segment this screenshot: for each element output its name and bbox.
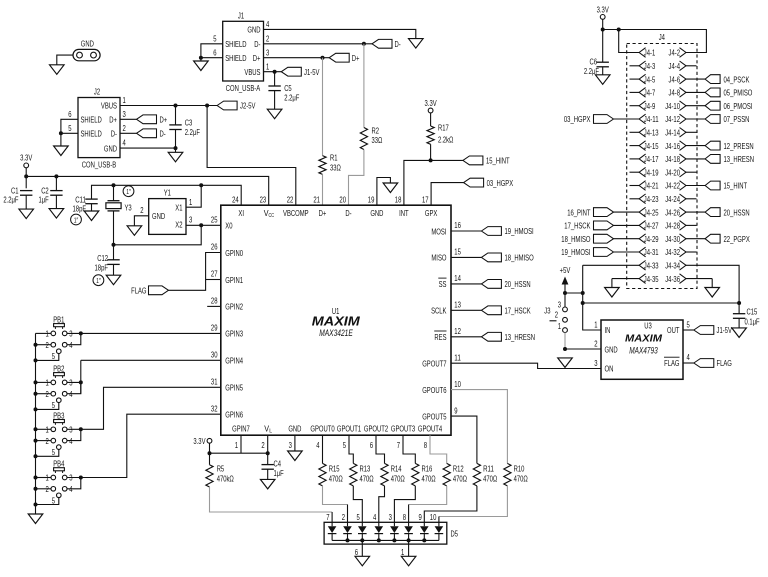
resistor R11 470ohm bbox=[473, 463, 480, 486]
wire R15 to D5 pin2 (grey) bbox=[323, 486, 348, 505]
wire PB2 pin1 to bus bbox=[36, 381, 52, 383]
resistor R2 33ohm bbox=[360, 128, 367, 150]
svg-text:31: 31 bbox=[211, 378, 218, 387]
svg-text:3: 3 bbox=[266, 48, 270, 57]
ground Y1 bbox=[127, 226, 142, 236]
wire 3.3V down bbox=[25, 168, 27, 189]
wire J1 VBUS to flag bbox=[264, 71, 282, 73]
svg-text:J4-1: J4-1 bbox=[644, 49, 656, 58]
wire C6 bottom bbox=[602, 67, 604, 75]
svg-text:J4-31: J4-31 bbox=[644, 248, 659, 257]
capacitor C12 18pF bbox=[107, 259, 119, 261]
svg-text:15_HINT: 15_HINT bbox=[486, 157, 510, 166]
svg-text:GPIN0: GPIN0 bbox=[225, 249, 243, 258]
wire PB3 pin5 to bus bbox=[36, 449, 59, 456]
svg-text:J4-24: J4-24 bbox=[665, 195, 680, 204]
J4 pin J4-8 bbox=[669, 88, 687, 98]
wire GPIN2 stub (n.c.) bbox=[207, 305, 221, 307]
wire R14 to D5 pin4 bbox=[379, 486, 385, 522]
svg-text:J4-34: J4-34 bbox=[665, 262, 680, 271]
wire U1 to flag 17_HSCK bbox=[451, 309, 481, 311]
wire J4-33 stub bbox=[583, 264, 639, 266]
svg-text:J4-8: J4-8 bbox=[669, 89, 681, 98]
svg-text:D+: D+ bbox=[160, 116, 168, 125]
wire J3 pin1 to ground (grey) bbox=[564, 333, 566, 350]
wire J4-24 stub (n.c.) bbox=[685, 198, 696, 200]
J4 pin J4-2 bbox=[669, 48, 687, 58]
svg-text:2: 2 bbox=[46, 485, 50, 494]
svg-text:GPIN5: GPIN5 bbox=[225, 384, 243, 393]
wire INT node to U1 INT pin18 bbox=[404, 160, 431, 205]
junction 3.3V J4 rail bbox=[601, 28, 605, 32]
wire FLAG to GPIN1/GPIN0 bbox=[169, 253, 221, 291]
wire J4-10 to flag bbox=[685, 105, 705, 107]
wire PB4 pin1 to bus bbox=[36, 477, 52, 479]
wire J4-22 to flag bbox=[685, 185, 705, 187]
svg-text:17_HSCK: 17_HSCK bbox=[505, 307, 532, 316]
svg-text:Y3: Y3 bbox=[125, 204, 133, 213]
svg-text:SHIELD: SHIELD bbox=[81, 116, 102, 125]
svg-text:+5V: +5V bbox=[560, 266, 571, 275]
svg-text:C2: C2 bbox=[41, 186, 49, 195]
svg-text:D-: D- bbox=[111, 130, 117, 139]
svg-text:1: 1 bbox=[401, 548, 405, 557]
wire J4-35 to ground bbox=[612, 278, 639, 280]
svg-text:R12: R12 bbox=[453, 465, 464, 474]
svg-text:SCLK: SCLK bbox=[431, 307, 447, 316]
ground C15 bbox=[732, 328, 747, 338]
svg-text:FLAG: FLAG bbox=[664, 359, 679, 368]
wire C5 bottom bbox=[274, 91, 276, 110]
svg-text:9: 9 bbox=[454, 406, 458, 415]
svg-text:R5: R5 bbox=[217, 465, 225, 474]
junction D5 cathode bbox=[407, 538, 411, 542]
svg-text:470Ω: 470Ω bbox=[360, 474, 374, 483]
svg-text:J4-30: J4-30 bbox=[665, 235, 680, 244]
svg-text:19: 19 bbox=[368, 195, 375, 204]
wire VL rail bbox=[210, 452, 268, 454]
ground C4 bbox=[260, 479, 275, 489]
resistor R17 2.2kohm bbox=[427, 126, 434, 144]
svg-text:3: 3 bbox=[69, 379, 73, 388]
pushbutton PB4 bbox=[46, 460, 73, 506]
wire D5 pin10 stub bbox=[438, 517, 440, 523]
svg-text:J4-26: J4-26 bbox=[665, 208, 680, 217]
flag 07_PSSN (at J4-12) bbox=[705, 115, 720, 124]
wire J4-27 to flag bbox=[614, 224, 640, 226]
svg-text:C4: C4 bbox=[274, 460, 282, 469]
svg-text:1: 1 bbox=[46, 379, 50, 388]
wire U1 to flag 13_HRESN bbox=[451, 336, 481, 338]
wire J4-19 stub (n.c.) bbox=[630, 171, 640, 173]
svg-text:6: 6 bbox=[370, 441, 374, 450]
svg-text:J4-28: J4-28 bbox=[665, 222, 680, 231]
note circled 1 inch near C11 bbox=[71, 214, 82, 225]
svg-text:2: 2 bbox=[594, 340, 598, 349]
wire to ground J2 GND bbox=[175, 148, 177, 152]
svg-text:X1: X1 bbox=[175, 203, 183, 212]
flag 18_HMISO (at U1) bbox=[481, 253, 501, 262]
J4 pin J4-9 bbox=[639, 101, 656, 111]
svg-text:J4-25: J4-25 bbox=[644, 208, 659, 217]
junction 3.3V rail bbox=[24, 174, 28, 178]
J4 pin J4-17 bbox=[639, 154, 659, 164]
wire J4-25 to flag bbox=[614, 211, 640, 213]
flag 20_HSSN (at U1) bbox=[481, 280, 501, 289]
svg-text:6: 6 bbox=[213, 48, 217, 57]
wire J4-34 to C15 rail bbox=[685, 265, 739, 303]
wire U1 to flag 18_HMISO bbox=[451, 256, 481, 258]
svg-text:FLAG: FLAG bbox=[717, 359, 732, 368]
wire GPOUT7 to U3 ON bbox=[451, 363, 601, 368]
flag 16_PINT (at J4-25) bbox=[594, 208, 614, 217]
J4 pin J4-21 bbox=[639, 181, 659, 191]
junction VBUS C5 bbox=[273, 70, 277, 74]
svg-text:0.1μF: 0.1μF bbox=[745, 317, 760, 326]
svg-text:470Ω: 470Ω bbox=[453, 474, 467, 483]
svg-text:3.3V: 3.3V bbox=[597, 6, 609, 15]
svg-text:J4-16: J4-16 bbox=[665, 142, 680, 151]
svg-text:10: 10 bbox=[430, 513, 437, 522]
svg-text:19_HMOSI: 19_HMOSI bbox=[505, 227, 534, 236]
flag 18_HMISO (at J4-29) bbox=[594, 234, 614, 243]
svg-text:20_HSSN: 20_HSSN bbox=[505, 280, 531, 289]
wire U1 to flag 20_HSSN bbox=[451, 283, 481, 285]
junction PB1 pin5 bus bbox=[34, 358, 38, 362]
junction +5V main node bbox=[581, 291, 585, 295]
wire 3.3V rail to Vcc pin23 bbox=[26, 176, 269, 205]
resistor R16 470ohm bbox=[412, 463, 419, 486]
wire C11 bottom bbox=[91, 204, 93, 211]
wire J2 D- to flag bbox=[120, 132, 137, 134]
svg-text:D+: D+ bbox=[109, 116, 117, 125]
svg-text:J4-7: J4-7 bbox=[644, 89, 656, 98]
svg-text:1: 1 bbox=[123, 96, 127, 105]
resistor R5 470ohm bbox=[206, 465, 213, 487]
svg-text:25: 25 bbox=[211, 216, 218, 225]
svg-text:C6: C6 bbox=[590, 57, 598, 66]
svg-text:22: 22 bbox=[287, 195, 294, 204]
svg-text:3: 3 bbox=[69, 426, 73, 435]
svg-text:D-: D- bbox=[160, 130, 166, 139]
svg-text:17_HSCK: 17_HSCK bbox=[564, 222, 591, 231]
wire GPIN1 stub bbox=[206, 279, 221, 281]
junction X1 drop bbox=[199, 183, 203, 187]
flag J1-5V (at U3 OUT) bbox=[694, 326, 714, 335]
svg-text:470kΩ: 470kΩ bbox=[217, 474, 234, 483]
flag FLAG (at U3) bbox=[694, 359, 714, 368]
svg-text:10: 10 bbox=[454, 380, 461, 389]
svg-text:GPOUT4: GPOUT4 bbox=[418, 425, 443, 434]
wire crystal rail to XI pin24 bbox=[92, 185, 242, 205]
junction PB3 pin3 bbox=[79, 427, 83, 431]
svg-text:6: 6 bbox=[355, 548, 359, 557]
ground pushbutton bus bbox=[28, 514, 43, 524]
wire INT node to flag 15_HINT bbox=[431, 159, 463, 161]
svg-text:J4: J4 bbox=[659, 33, 666, 42]
wire PB2 to GPIN4 pin30 bbox=[80, 360, 82, 393]
wire J4-4 stub (n.c.) bbox=[685, 65, 696, 67]
wire J4-3 stub (n.c.) bbox=[630, 65, 640, 67]
svg-text:MAXIM: MAXIM bbox=[312, 314, 361, 328]
svg-text:J4-21: J4-21 bbox=[644, 182, 659, 191]
svg-text:R10: R10 bbox=[514, 465, 525, 474]
svg-text:1: 1 bbox=[266, 62, 270, 71]
J4 pin J4-11 bbox=[639, 114, 659, 124]
svg-text:2.2μF: 2.2μF bbox=[284, 94, 299, 103]
note circled 1 inch near C12 bbox=[93, 275, 104, 286]
svg-text:11: 11 bbox=[454, 353, 461, 362]
resistor R1 33ohm bbox=[319, 156, 326, 175]
wire GPOUT6 to R10 (grey) bbox=[451, 390, 507, 464]
J4 pin J4-4 bbox=[669, 61, 687, 71]
J4 pin J4-6 bbox=[669, 74, 687, 84]
wire VL pin2 down bbox=[267, 435, 269, 464]
svg-text:R14: R14 bbox=[391, 465, 402, 474]
wire J1 shield pins bbox=[201, 44, 223, 61]
wire PB1 pin1 to bus bbox=[36, 332, 52, 334]
wire J4-15 stub (n.c.) bbox=[630, 145, 640, 147]
svg-text:J4-32: J4-32 bbox=[665, 248, 680, 257]
ground testpoint bbox=[50, 65, 65, 75]
wire C12 bottom bbox=[113, 264, 115, 275]
wire GPOUT5 to R11 bbox=[451, 416, 477, 463]
J4 pin J4-18 bbox=[665, 154, 686, 164]
wire PB1 pin5 to bus bbox=[36, 354, 59, 361]
flag 15_HINT (at U1 INT) bbox=[463, 156, 483, 165]
flag 13_HRESN (at J4-18) bbox=[705, 155, 720, 164]
wire D5 pin7 stub bbox=[331, 512, 333, 522]
J4 pin J4-28 bbox=[665, 221, 686, 231]
J4 pin J4-24 bbox=[665, 194, 686, 204]
junction J1 shield bbox=[199, 56, 203, 60]
wire PB3 pins 3-4 tie bbox=[67, 429, 81, 440]
svg-text:GPIN7: GPIN7 bbox=[232, 425, 250, 434]
svg-text:6: 6 bbox=[68, 110, 72, 119]
LED array D5 bbox=[324, 522, 447, 544]
svg-text:16: 16 bbox=[454, 221, 461, 230]
wire GPOUT4 to R12 (grey) bbox=[430, 435, 447, 463]
svg-text:J4-29: J4-29 bbox=[644, 235, 659, 244]
svg-text:J2: J2 bbox=[94, 87, 101, 96]
junction C15 top bbox=[737, 301, 741, 305]
junction C2 top bbox=[54, 174, 58, 178]
wire PB2 pin5 to bus bbox=[36, 403, 59, 410]
J4 pin J4-19 bbox=[639, 167, 659, 177]
svg-text:C1: C1 bbox=[11, 186, 19, 195]
wire J4-16 to flag bbox=[685, 145, 705, 147]
junction PB4 pin5 bus bbox=[34, 503, 38, 507]
wire R17 to INT node bbox=[430, 144, 432, 160]
flag 22_PGPX (at J4-30) bbox=[705, 234, 720, 243]
wire GPOUT0 to R15 bbox=[322, 435, 324, 463]
wire D5 pin2 stub bbox=[347, 505, 349, 523]
ground D5 pin1 bbox=[401, 556, 416, 566]
wire C2 bottom bbox=[55, 195, 57, 208]
svg-text:J4-13: J4-13 bbox=[644, 129, 659, 138]
wire C12 top bbox=[113, 245, 115, 260]
wire PB1 pins 3-4 tie bbox=[67, 333, 81, 344]
crystal oscillator Y1 bbox=[149, 199, 186, 235]
wire J4-13 stub (n.c.) bbox=[630, 131, 640, 133]
svg-text:GPIN6: GPIN6 bbox=[225, 411, 243, 420]
J4 pin J4-26 bbox=[665, 207, 686, 217]
svg-text:R16: R16 bbox=[422, 465, 433, 474]
svg-text:8: 8 bbox=[424, 441, 428, 450]
wire J1 D+ net bbox=[264, 57, 323, 59]
wire J2 D+ to flag bbox=[120, 118, 137, 120]
wire PB1 to GPIN3 pin29 bbox=[81, 332, 221, 334]
wire PB2 pin2 to bus bbox=[36, 393, 52, 395]
flag D+ (J2) bbox=[137, 115, 157, 124]
junction J2-5V/VBCOMP bbox=[205, 104, 209, 108]
junction Y3/C12 bottom bbox=[112, 243, 116, 247]
ground J2 shield bbox=[54, 146, 69, 156]
wire C2 top bbox=[55, 176, 57, 190]
svg-text:4: 4 bbox=[69, 437, 73, 446]
svg-text:R2: R2 bbox=[372, 126, 380, 135]
ground D5 pin6 bbox=[355, 556, 370, 566]
svg-text:ON: ON bbox=[605, 365, 614, 374]
J4 pin J4-23 bbox=[639, 194, 659, 204]
wire U1 GND pin19 bbox=[377, 178, 391, 206]
wire PB4 to GPIN6 pin32 bbox=[81, 414, 221, 477]
junction PB2 pin2 bus bbox=[34, 392, 38, 396]
flag 06_PMOSI (at J4-10) bbox=[705, 101, 720, 110]
svg-text:GPOUT2: GPOUT2 bbox=[364, 425, 389, 434]
svg-text:15_HINT: 15_HINT bbox=[724, 182, 748, 191]
ground U1 GND pin19 bbox=[383, 183, 398, 193]
wire PB4 pins 3-4 tie bbox=[67, 478, 81, 489]
svg-text:GPOUT7: GPOUT7 bbox=[422, 360, 447, 369]
J4 pin J4-20 bbox=[665, 167, 686, 177]
wire D5 pin8 stub bbox=[408, 505, 410, 523]
svg-text:VBUS: VBUS bbox=[244, 68, 260, 77]
junction PB4 pin3 bbox=[79, 476, 83, 480]
svg-text:RES: RES bbox=[434, 333, 446, 342]
IC U3 MAX4793 bbox=[601, 320, 683, 379]
svg-text:8: 8 bbox=[403, 513, 407, 522]
wire J4-28 stub (n.c.) bbox=[685, 224, 696, 226]
J4 pin J4-34 bbox=[665, 261, 686, 271]
svg-text:2.2μF: 2.2μF bbox=[185, 128, 200, 137]
svg-text:18pF: 18pF bbox=[73, 205, 87, 214]
svg-text:SHIELD: SHIELD bbox=[225, 54, 246, 63]
flag 03_HGPX (at J4-11) bbox=[594, 115, 614, 124]
wire D- to R2 (grey) bbox=[363, 44, 365, 128]
wire R10 to D5 pin10 (grey) bbox=[439, 486, 508, 517]
pushbutton PB2 bbox=[46, 365, 73, 411]
wire U3 FLAG to flag bbox=[683, 362, 694, 364]
svg-text:19_HMOSI: 19_HMOSI bbox=[561, 248, 590, 257]
wire PB4 pin5 to bus bbox=[36, 498, 59, 505]
svg-text:IN: IN bbox=[605, 326, 611, 335]
IC U1 MAX3421E bbox=[221, 205, 451, 435]
capacitor C2 1uF bbox=[50, 190, 62, 192]
connector J2 CON_USB-B bbox=[78, 98, 120, 158]
junction PB4 pin2 bus bbox=[34, 487, 38, 491]
svg-text:470Ω: 470Ω bbox=[329, 474, 343, 483]
svg-text:MISO: MISO bbox=[431, 254, 446, 263]
svg-text:470Ω: 470Ω bbox=[391, 474, 405, 483]
svg-text:J1: J1 bbox=[238, 11, 245, 20]
wire testpoint to ground bbox=[57, 55, 73, 65]
ground J1 shield bbox=[194, 61, 209, 71]
flag D- (J1) bbox=[372, 39, 392, 48]
J4 pin J4-7 bbox=[639, 88, 656, 98]
svg-text:VBCOMP: VBCOMP bbox=[283, 209, 309, 218]
svg-text:J3: J3 bbox=[544, 306, 551, 315]
svg-text:1: 1 bbox=[46, 330, 50, 339]
junction J4-1 drop bbox=[617, 28, 621, 32]
capacitor C11 18pF bbox=[85, 198, 97, 200]
wire J4-9 stub (n.c.) bbox=[630, 105, 640, 107]
flag 15_HINT (at J4-22) bbox=[705, 181, 720, 190]
wire U3 OUT to flag bbox=[683, 329, 694, 331]
svg-text:1μF: 1μF bbox=[274, 469, 284, 478]
junction C3 top bbox=[174, 104, 178, 108]
svg-text:5: 5 bbox=[213, 35, 217, 44]
svg-text:R17: R17 bbox=[438, 124, 449, 133]
ground J1 GND bbox=[409, 39, 424, 49]
svg-text:2.2kΩ: 2.2kΩ bbox=[438, 135, 453, 144]
svg-text:06_PMOSI: 06_PMOSI bbox=[724, 102, 753, 111]
svg-text:GND: GND bbox=[370, 209, 383, 218]
svg-text:J4-33: J4-33 bbox=[644, 262, 659, 271]
J4 pin J4-15 bbox=[639, 141, 659, 151]
flag 04_PSCK (at J4-6) bbox=[705, 75, 720, 84]
svg-text:18: 18 bbox=[395, 195, 402, 204]
wire D- junction to flag bbox=[364, 43, 372, 45]
svg-text:21: 21 bbox=[313, 195, 320, 204]
J4 pin J4-22 bbox=[665, 181, 686, 191]
J4 pin J4-14 bbox=[665, 128, 686, 138]
svg-text:20: 20 bbox=[339, 195, 346, 204]
svg-text:GPOUT5: GPOUT5 bbox=[422, 412, 447, 421]
junction D5 cathode bbox=[422, 538, 426, 542]
svg-text:J4-12: J4-12 bbox=[665, 115, 680, 124]
junction PB2 pin5 bus bbox=[34, 407, 38, 411]
resistor R10 470ohm bbox=[504, 463, 511, 486]
svg-text:MOSI: MOSI bbox=[431, 227, 446, 236]
wire C15 bottom lead bbox=[738, 318, 740, 328]
wire J4-6 to flag bbox=[685, 78, 705, 80]
J3 removed-jumper dash bbox=[550, 320, 557, 322]
J4 pin J4-10 bbox=[665, 101, 686, 111]
ground C1 bbox=[19, 209, 34, 219]
ground C5 bbox=[267, 109, 282, 119]
wire J4-14 stub (n.c.) bbox=[685, 131, 696, 133]
wire C4 bottom bbox=[267, 469, 269, 479]
svg-text:J4-6: J4-6 bbox=[669, 75, 681, 84]
capacitor C15 0.1uF bbox=[733, 313, 745, 315]
svg-text:18_HMISO: 18_HMISO bbox=[505, 254, 534, 263]
svg-text:20_HSSN: 20_HSSN bbox=[724, 208, 750, 217]
wire pushbutton ground bus bbox=[35, 333, 37, 514]
svg-text:XI: XI bbox=[238, 209, 244, 218]
wire U1 GND pin3 down bbox=[294, 435, 296, 451]
J4 pin J4-30 bbox=[665, 234, 686, 244]
svg-text:2: 2 bbox=[123, 124, 127, 133]
svg-text:J4-4: J4-4 bbox=[669, 62, 681, 71]
wire D5 cathode bus bbox=[332, 539, 439, 541]
junction D5 cathode bbox=[360, 538, 364, 542]
wire R1 to U1 D+ pin21 (grey) bbox=[322, 174, 324, 205]
svg-text:2: 2 bbox=[342, 513, 346, 522]
junction Y3 top bbox=[112, 183, 116, 187]
svg-text:GND: GND bbox=[104, 144, 117, 153]
svg-text:CON_USB-A: CON_USB-A bbox=[226, 84, 261, 93]
